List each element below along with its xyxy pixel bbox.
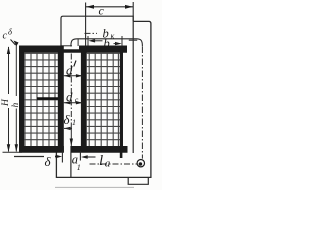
- wire thick dash in left grid: [37, 97, 58, 100]
- winding grid left: [24, 53, 58, 146]
- svg-text:H: H: [1, 98, 11, 107]
- svg-text:δ: δ: [64, 112, 71, 127]
- wire mounting foot: [128, 178, 148, 185]
- dimension d-prime line: [64, 75, 83, 77]
- winding grid right: [87, 53, 120, 146]
- dimension d-c line: [64, 102, 83, 104]
- svg-text:δ: δ: [45, 154, 52, 169]
- node down arrow centerline: [70, 128, 72, 146]
- dimension a1 arrow: [81, 155, 88, 158]
- wire c-delta leader: [11, 40, 16, 46]
- core left bar: [19, 46, 24, 153]
- core right bar stub: [120, 153, 123, 159]
- wire yoke top edge: [61, 45, 72, 47]
- dimension b arrow right: [115, 42, 122, 45]
- svg-text:h: h: [11, 103, 21, 108]
- core center bar left: [58, 46, 64, 153]
- svg-text:δ: δ: [8, 27, 13, 37]
- core top yoke: [19, 46, 127, 53]
- wire a1 tick: [79, 151, 81, 161]
- wire hidden centerline vertical right: [141, 47, 143, 159]
- node c arrows: [86, 5, 133, 9]
- core bottom yoke: [19, 146, 128, 153]
- svg-text:b: b: [104, 37, 110, 51]
- core center bar right: [81, 46, 87, 153]
- node terminal circle: [137, 160, 144, 167]
- wire centerline lA dash-dot: [90, 163, 138, 165]
- wire delta tick: [61, 151, 63, 163]
- dimension delta arrow: [55, 156, 59, 158]
- svg-text:κ: κ: [111, 32, 115, 41]
- svg-text:c: c: [99, 4, 105, 18]
- dimension H arrows: [7, 46, 10, 152]
- svg-text:c: c: [3, 31, 8, 42]
- wire b-k tick cross: [129, 39, 137, 41]
- wire faint base line: [55, 186, 134, 188]
- dimension H line: [8, 47, 10, 152]
- wire rectangle A outline: [61, 16, 133, 153]
- wire b tick left: [87, 36, 89, 46]
- dimension delta line left part: [14, 156, 44, 158]
- wire window centerline: [70, 54, 72, 129]
- wire rectangle B case outline: [56, 21, 150, 177]
- svg-text:l: l: [99, 153, 103, 169]
- wire dimension c ticks and line: [86, 2, 134, 46]
- wire coil step: [77, 39, 79, 46]
- wire b tick right: [121, 36, 123, 46]
- svg-text:1: 1: [72, 118, 76, 127]
- dimension delta-1 arrow: [64, 127, 71, 130]
- svg-text:a: a: [105, 158, 111, 170]
- dimension h line: [15, 44, 17, 152]
- core right bar: [120, 46, 123, 153]
- wire coil left edge bottom: [70, 153, 72, 178]
- wire baseline bottom left: [3, 151, 23, 153]
- dimension b arrow left: [88, 39, 95, 42]
- wire coil contour C top: [71, 39, 142, 47]
- dimension h arrow top: [14, 41, 19, 47]
- dimension h arrow bottom: [15, 144, 18, 152]
- svg-text:1: 1: [77, 163, 81, 172]
- wire b-k dash-dot: [85, 32, 98, 34]
